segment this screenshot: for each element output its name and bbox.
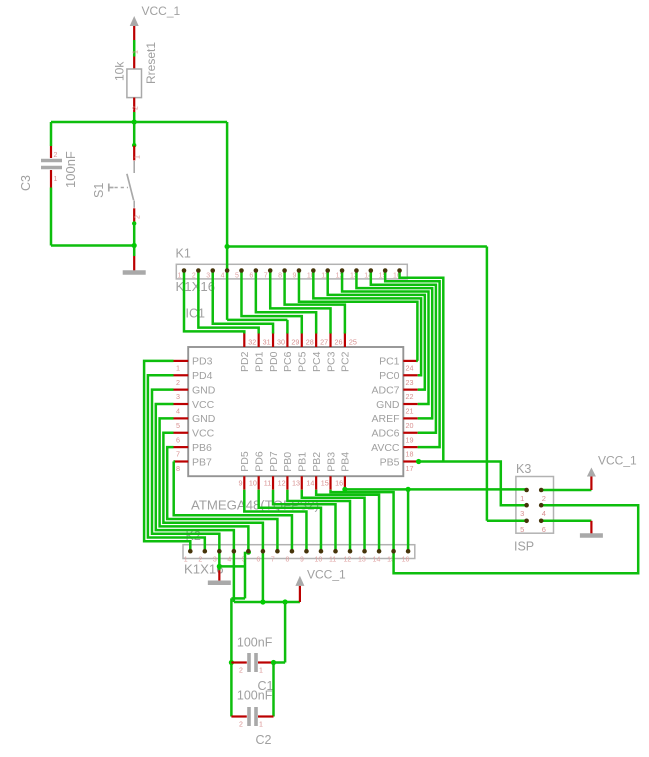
- wire K1 pin 10 to PC0: [313, 271, 421, 376]
- connector K2 pin 12 dot: [348, 549, 353, 554]
- capacitor C3 pin 2 stub: [50, 146, 52, 158]
- node PB4 stub junction: [342, 487, 347, 492]
- node C1 left junction: [229, 660, 234, 665]
- svg-text:PD7: PD7: [268, 451, 280, 472]
- wire K2 pin3 down: [218, 551, 221, 570]
- wire junction to ground: [133, 246, 136, 257]
- connector K2 pin 8 dot: [290, 549, 295, 554]
- IC1 pin 24 stub (PC1): [403, 360, 417, 362]
- wire VCC to R1: [133, 40, 136, 57]
- wire GND to K2 pin 3: [152, 390, 219, 552]
- svg-text:18: 18: [406, 450, 414, 459]
- svg-text:4: 4: [542, 509, 546, 518]
- wire K3 pin2 to VCC: [541, 489, 591, 492]
- IC1 pin 17 stub (PB5): [403, 460, 417, 462]
- svg-text:26: 26: [335, 337, 343, 346]
- IC1 pin 21 stub (GND): [403, 403, 417, 405]
- IC1 pin 20 stub (AREF): [403, 417, 417, 419]
- svg-text:C2: C2: [256, 733, 272, 747]
- switch S1 pin bottom stub: [133, 208, 135, 222]
- wire C3 bottom: [50, 188, 53, 246]
- power VCC_1 bottom symbol: [295, 576, 304, 586]
- svg-text:2: 2: [133, 106, 140, 110]
- wire GND jog right: [219, 565, 245, 568]
- connector K1 pin 4 dot: [225, 268, 230, 273]
- svg-text:VCC_1: VCC_1: [598, 454, 637, 468]
- svg-text:8: 8: [278, 273, 282, 280]
- svg-text:4: 4: [227, 557, 231, 564]
- connector K1 pin 7 dot: [268, 268, 273, 273]
- ground symbol bottom: [218, 570, 220, 581]
- svg-text:K1: K1: [176, 247, 191, 261]
- svg-text:12: 12: [278, 479, 286, 488]
- capacitor C1 pin 1 stub: [258, 661, 274, 663]
- svg-text:2: 2: [198, 557, 202, 564]
- IC1 pin 16 stub (PB4): [344, 476, 346, 490]
- svg-text:22: 22: [406, 392, 414, 401]
- switch S1 contact and lever: [133, 161, 135, 173]
- svg-text:14: 14: [373, 557, 381, 564]
- IC1 pin 1 stub (PD3): [174, 360, 189, 362]
- wire PB4 to K3 pin 1: [345, 488, 527, 491]
- wire K2 pin4 down to VCC rail: [233, 551, 236, 602]
- svg-text:32: 32: [248, 337, 256, 346]
- wire PB1 to K2 pin 13: [302, 490, 365, 552]
- svg-text:16: 16: [335, 479, 343, 488]
- svg-text:7: 7: [264, 273, 268, 280]
- svg-text:6: 6: [176, 435, 180, 444]
- svg-text:PC4: PC4: [311, 351, 323, 372]
- connector K2 pin 7 dot: [275, 549, 280, 554]
- wire junction to S1: [133, 122, 136, 146]
- svg-text:PB0: PB0: [282, 452, 294, 472]
- capacitor C2 plates: [247, 707, 251, 726]
- svg-text:2: 2: [542, 494, 546, 503]
- wire K2 pin15 to K3 pin 4: [394, 505, 639, 573]
- node reset junction: [132, 119, 137, 124]
- svg-text:PD2: PD2: [239, 351, 251, 372]
- svg-text:IC1: IC1: [186, 307, 206, 321]
- connector K2 pin 3 dot: [217, 549, 222, 554]
- wire GND down from K2 pin5: [244, 552, 247, 599]
- svg-text:13: 13: [358, 557, 366, 564]
- svg-text:VCC: VCC: [192, 428, 215, 440]
- svg-text:14: 14: [306, 479, 314, 488]
- svg-text:15: 15: [321, 479, 329, 488]
- svg-text:3: 3: [213, 557, 217, 564]
- wire C1 right down to C2: [272, 663, 275, 717]
- svg-text:GND: GND: [192, 413, 216, 425]
- node PB5 stub junction: [416, 459, 421, 464]
- wire K1 pin 16 to PB5 net: [400, 271, 444, 462]
- svg-text:PD5: PD5: [239, 451, 251, 472]
- wire K1 pin 1 to PD2: [184, 271, 244, 334]
- svg-text:K3: K3: [516, 462, 531, 476]
- svg-text:PB6: PB6: [192, 442, 212, 454]
- svg-text:4: 4: [176, 407, 180, 416]
- node K2 pin5 junction: [246, 550, 251, 555]
- IC U1 ATMEGA48 body: [188, 347, 403, 476]
- IC1 pin 10 stub (PD6): [258, 476, 260, 490]
- wire reset to K3 pin5: [487, 520, 527, 523]
- svg-text:1: 1: [259, 722, 263, 729]
- svg-text:PC6: PC6: [282, 351, 294, 372]
- svg-text:20: 20: [406, 421, 414, 430]
- wire GND to K2 pin 5: [160, 418, 249, 551]
- svg-text:PB1: PB1: [297, 452, 309, 472]
- svg-text:PD4: PD4: [192, 370, 213, 382]
- connector K1 pin 8 dot: [282, 268, 287, 273]
- IC1 pin 32 stub (PD2): [243, 333, 245, 348]
- switch S1 pin top stub: [133, 146, 135, 161]
- svg-text:31: 31: [263, 337, 271, 346]
- svg-text:ADC7: ADC7: [371, 384, 399, 396]
- IC1 pin 6 stub (VCC): [174, 432, 189, 434]
- wire reset down K1 pin4: [226, 122, 229, 247]
- svg-text:PB2: PB2: [311, 452, 323, 472]
- node GND junction below K2 pin3: [217, 564, 222, 569]
- svg-text:1: 1: [184, 557, 188, 564]
- svg-text:6: 6: [542, 525, 546, 534]
- svg-text:ISP: ISP: [514, 540, 534, 554]
- svg-text:4: 4: [221, 273, 225, 280]
- svg-text:2: 2: [239, 668, 243, 675]
- svg-text:25: 25: [349, 337, 357, 346]
- svg-text:16: 16: [402, 557, 410, 564]
- connector K3 outline: [516, 477, 554, 534]
- svg-text:2: 2: [54, 152, 58, 159]
- IC1 pin 4 stub (VCC): [174, 403, 189, 405]
- wire MISO down to K2 pin 16: [407, 489, 410, 551]
- svg-text:VCC_1: VCC_1: [142, 4, 181, 18]
- wire PD6 to K2 pin 10: [259, 490, 321, 552]
- wire K1 pin 6 to PC4: [256, 271, 316, 334]
- IC1 pin 25 stub (PC2): [344, 333, 346, 348]
- svg-text:PB7: PB7: [192, 456, 212, 468]
- connector K2 outline: [183, 545, 415, 559]
- svg-text:GND: GND: [376, 399, 400, 411]
- svg-text:VCC: VCC: [192, 399, 215, 411]
- IC1 pin 27 stub (PC4): [315, 333, 317, 348]
- wire reset level to PC6 stub: [227, 319, 287, 322]
- node K2 pin16 branch junction: [406, 487, 411, 492]
- connector K1 pin 3 dot: [210, 268, 215, 273]
- wire PB0 to K2 pin 12: [287, 490, 350, 552]
- IC1 pin 15 stub (PB3): [329, 476, 331, 490]
- svg-text:7: 7: [176, 450, 180, 459]
- svg-text:AREF: AREF: [371, 413, 399, 425]
- node C1 right junction: [271, 660, 276, 665]
- IC1 pin 13 stub (PB1): [301, 476, 303, 490]
- svg-text:PC1: PC1: [379, 356, 400, 368]
- wire S1 to gnd junction: [133, 222, 136, 245]
- svg-text:9: 9: [239, 479, 243, 488]
- wire GND jog left: [231, 597, 245, 600]
- node S1 C3 ground junction: [132, 243, 137, 248]
- svg-text:PB5: PB5: [380, 456, 400, 468]
- capacitor C1 pin 2 stub: [231, 661, 246, 663]
- svg-text:PC5: PC5: [297, 351, 309, 372]
- svg-text:10: 10: [314, 557, 322, 564]
- capacitor C1 plates: [247, 653, 251, 672]
- svg-text:3: 3: [520, 509, 524, 518]
- svg-text:10: 10: [249, 479, 257, 488]
- wire reset ISP vertical: [486, 247, 489, 521]
- wire K1 pin 2 to PD1: [198, 271, 258, 334]
- svg-text:K1X16: K1X16: [184, 562, 224, 577]
- svg-text:10k: 10k: [113, 61, 127, 81]
- wire K1 pin 5 to PC5: [241, 271, 301, 334]
- capacitor C3 plates: [41, 159, 62, 163]
- connector K1 pin 11 dot: [325, 268, 330, 273]
- svg-text:3: 3: [206, 273, 210, 280]
- wire GND left rail to capacitors: [230, 598, 233, 716]
- connector K1 pin 5 dot: [239, 268, 244, 273]
- IC1 pin 14 stub (PB2): [315, 476, 317, 490]
- wire C3 top: [50, 122, 53, 146]
- power VCC_1 right symbol: [587, 468, 596, 477]
- IC1 pin 8 stub (PB7): [174, 460, 189, 462]
- svg-text:PD6: PD6: [253, 451, 265, 472]
- svg-text:GND: GND: [192, 384, 216, 396]
- connector K2 pin 6 dot: [261, 549, 266, 554]
- svg-text:2: 2: [192, 273, 196, 280]
- wire PD3 to K2 pin 1: [144, 361, 190, 551]
- svg-text:11: 11: [264, 479, 271, 488]
- wire K1 pin 13 to AREF: [356, 271, 432, 419]
- svg-text:5: 5: [520, 525, 524, 534]
- IC1 pin 2 stub (PD4): [174, 374, 189, 376]
- svg-text:6: 6: [256, 557, 260, 564]
- svg-text:19: 19: [406, 435, 414, 444]
- wire K1 pin 8 to PC2: [285, 271, 345, 334]
- connector K2 pin 2 dot: [203, 549, 208, 554]
- node S1 top pin connection: [132, 143, 136, 147]
- connector K1 pin 1 dot: [182, 268, 187, 273]
- connector K2 pin 1 dot: [188, 549, 193, 554]
- power VCC_1 top symbol: [130, 16, 139, 26]
- wire PB3 to K2 pin 15: [331, 490, 394, 552]
- connector K2 pin 9 dot: [304, 549, 309, 554]
- wire K1 pin 3 to PD0: [213, 271, 273, 334]
- svg-text:AVCC: AVCC: [371, 442, 400, 454]
- connector K1 pin 13 dot: [354, 268, 359, 273]
- resistor Rreset1 pin 1 stub: [133, 57, 135, 70]
- svg-text:5: 5: [176, 421, 180, 430]
- IC1 pin 28 stub (PC5): [301, 333, 303, 348]
- IC1 pin 3 stub (GND): [174, 389, 189, 391]
- connector K1 pin 15 dot: [383, 268, 388, 273]
- connector K2 pin 14 dot: [377, 549, 382, 554]
- connector K1 pin 14 dot: [369, 268, 374, 273]
- svg-text:7: 7: [271, 557, 275, 564]
- connector K2 pin 16 dot: [406, 549, 411, 554]
- wire PB6 to K2 pin 7: [167, 447, 277, 551]
- svg-text:C3: C3: [19, 175, 33, 191]
- svg-text:24: 24: [406, 363, 414, 372]
- svg-text:100nF: 100nF: [237, 636, 273, 650]
- svg-text:PD3: PD3: [192, 356, 213, 368]
- wire PB2 to K2 pin 14: [316, 490, 379, 552]
- svg-text:8: 8: [176, 464, 180, 473]
- svg-text:1: 1: [520, 494, 524, 503]
- connector K2 pin 10 dot: [319, 549, 324, 554]
- svg-text:3: 3: [176, 392, 180, 401]
- svg-text:2: 2: [239, 722, 243, 729]
- IC1 pin 11 stub (PD7): [272, 476, 274, 490]
- wire K1 pin 15 to AVCC: [385, 271, 439, 448]
- wire VCC to K2 pin 6: [163, 433, 263, 551]
- wire reset junction to K1 pin4 column: [134, 121, 227, 124]
- capacitor C3 pin 1 stub: [50, 170, 52, 188]
- wire reset horizontal to C3: [51, 121, 134, 124]
- switch S1 actuator: [108, 184, 110, 192]
- svg-text:1: 1: [259, 668, 263, 675]
- wire PB5 to ISP SCK: [418, 461, 527, 505]
- connector K1 pin 9 dot: [297, 268, 302, 273]
- svg-text:21: 21: [406, 407, 414, 416]
- svg-text:ADC6: ADC6: [371, 428, 399, 440]
- connector K2 pin 4 dot: [232, 549, 237, 554]
- svg-text:12: 12: [344, 557, 352, 564]
- svg-text:VCC_1: VCC_1: [307, 568, 346, 582]
- svg-text:PD1: PD1: [253, 351, 265, 372]
- IC1 pin 30 stub (PD0): [272, 333, 274, 348]
- wire K1 pin 7 to PC3: [270, 271, 330, 334]
- wire PD7 to K2 pin 11: [273, 490, 335, 552]
- svg-text:1: 1: [135, 155, 142, 159]
- svg-text:13: 13: [292, 479, 300, 488]
- connector K1 pin 6 dot: [254, 268, 259, 273]
- svg-text:30: 30: [277, 337, 285, 346]
- wire reset branch to ISP column: [227, 245, 487, 248]
- wire K2 pin6 down to VCC rail: [262, 551, 265, 602]
- svg-text:K1X16: K1X16: [176, 279, 216, 294]
- wire K3 pin6 to ground: [541, 520, 591, 523]
- wire K1 pin 14 to ADC6: [371, 271, 436, 433]
- resistor Rreset1 body: [127, 69, 142, 98]
- node VCC rail cap branch junction: [283, 599, 288, 604]
- svg-text:S1: S1: [92, 183, 106, 198]
- svg-text:5: 5: [235, 273, 239, 280]
- svg-text:PD0: PD0: [268, 351, 280, 372]
- svg-text:PC0: PC0: [379, 370, 400, 382]
- wire PD5 to K2 pin 9: [244, 490, 306, 552]
- connector K2 pin 15 dot: [391, 549, 396, 554]
- wire K1 pin 9 to PC1: [299, 271, 418, 361]
- ground symbol right: [590, 521, 592, 534]
- wire VCC rail down to C1: [284, 602, 287, 663]
- resistor Rreset1 pin 2 stub: [133, 98, 135, 112]
- IC1 pin 7 stub (PB6): [174, 446, 189, 448]
- svg-text:23: 23: [406, 378, 414, 387]
- IC1 pin 18 stub (AVCC): [403, 446, 417, 448]
- svg-text:1: 1: [54, 176, 58, 183]
- IC1 pin 9 stub (PD5): [243, 476, 245, 490]
- IC1 pin 5 stub (GND): [174, 417, 189, 419]
- node VCC rail pin6 junction: [260, 599, 265, 604]
- svg-text:9: 9: [300, 557, 304, 564]
- wire PB7 to K2 pin 8: [174, 461, 292, 551]
- ground symbol top: [133, 256, 135, 271]
- svg-text:2: 2: [135, 215, 142, 219]
- svg-text:100nF: 100nF: [63, 151, 78, 188]
- wire C1 right to VCC drop: [274, 661, 286, 664]
- svg-text:1: 1: [178, 273, 182, 280]
- connector K1 pin 12 dot: [340, 268, 345, 273]
- svg-text:PB4: PB4: [340, 452, 352, 472]
- IC1 pin 29 stub (PC6): [286, 333, 288, 348]
- svg-text:PB3: PB3: [325, 452, 337, 472]
- wire C3 to S1 bottom: [51, 244, 134, 247]
- IC1 pin 12 stub (PB0): [286, 476, 288, 490]
- IC1 pin 26 stub (PC3): [329, 333, 331, 348]
- svg-text:17: 17: [406, 464, 414, 473]
- node S1 bottom pin connection: [132, 221, 136, 225]
- svg-text:29: 29: [291, 337, 299, 346]
- svg-text:100nF: 100nF: [237, 689, 273, 703]
- wire K1 pin 12 to GND: [342, 271, 428, 405]
- connector K2 pin 13 dot: [362, 549, 367, 554]
- connector K1 pin 2 dot: [196, 268, 201, 273]
- connector K2 pin 11 dot: [333, 549, 338, 554]
- svg-text:28: 28: [306, 337, 314, 346]
- connector K1 pin 10 dot: [311, 268, 316, 273]
- IC1 pin 31 stub (PD1): [258, 333, 260, 348]
- wire reset through K1 pin4 to PC6 level: [226, 247, 229, 320]
- IC1 pin 23 stub (PC0): [403, 374, 417, 376]
- wire VCC to K2 pin 4: [156, 404, 234, 551]
- connector K3 pin 6 dot: [539, 519, 544, 524]
- connector K3 pin 3 dot: [524, 503, 529, 508]
- wire reset drop to PC6: [286, 320, 289, 334]
- svg-text:1: 1: [176, 363, 180, 372]
- wire R1 to reset junction: [133, 112, 136, 122]
- connector K2 pin 5 dot: [246, 549, 251, 554]
- connector K3 pin 4 dot: [539, 503, 544, 508]
- svg-text:6: 6: [249, 273, 253, 280]
- svg-text:27: 27: [320, 337, 328, 346]
- connector K3 pin 2 dot: [539, 488, 544, 493]
- svg-text:1: 1: [133, 50, 140, 54]
- svg-text:11: 11: [329, 557, 336, 564]
- node reset ISP branch junction: [225, 244, 230, 249]
- connector K3 pin 5 dot: [524, 519, 529, 524]
- capacitor C2 pin 1 stub: [258, 715, 274, 717]
- connector K1 outline: [176, 264, 407, 279]
- wire PD4 to K2 pin 2: [148, 375, 205, 551]
- svg-text:PC2: PC2: [340, 351, 352, 372]
- svg-text:2: 2: [176, 378, 180, 387]
- connector K1 pin 16 dot: [397, 268, 402, 273]
- connector K3 pin 1 dot: [524, 488, 529, 493]
- wire VCC rail horizontal: [234, 601, 300, 604]
- wire K1 pin 11 to ADC7: [328, 271, 425, 390]
- svg-text:PC3: PC3: [325, 351, 337, 372]
- capacitor C2 pin 2 stub: [231, 715, 246, 717]
- svg-text:9: 9: [292, 273, 296, 280]
- IC1 pin 19 stub (ADC6): [403, 432, 417, 434]
- IC1 pin 22 stub (ADC7): [403, 389, 417, 391]
- svg-text:Rreset1: Rreset1: [144, 42, 158, 84]
- svg-text:8: 8: [285, 557, 289, 564]
